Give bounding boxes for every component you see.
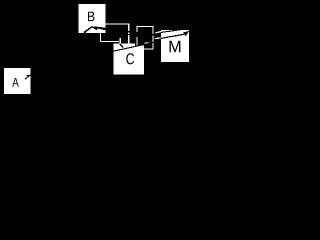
black crossing line L1 (B to box2 right) bbox=[94, 27, 156, 35]
edge A to B (black line, visible over fills) bbox=[25, 27, 92, 80]
line R inside M bbox=[161, 34, 187, 39]
wire P core box2 to M top-left bbox=[156, 32, 162, 33]
wire elbow B bottom to C top-left bbox=[100, 33, 123, 48]
line P inside M bbox=[161, 30, 180, 33]
box B bbox=[79, 4, 106, 33]
wire H1 from B right edge bbox=[106, 23, 130, 25]
notch at C top-right corner bbox=[135, 42, 145, 46]
line A to C (black, visible over fills) bbox=[31, 43, 154, 70]
box2 double-outline rectangle bbox=[137, 27, 153, 43]
black crossing line L2 (B to R start) bbox=[94, 27, 152, 39]
arrow tip bar into C top bbox=[120, 38, 122, 44]
wire elbow C right to box2 bottom bbox=[144, 43, 154, 49]
wire R core box2 to M left edge bbox=[155, 37, 161, 40]
arrowhead wing at A bbox=[27, 75, 30, 77]
box M bbox=[161, 30, 189, 62]
arrow shaft into C interior bbox=[120, 44, 124, 48]
forced gap on box2 left edge bbox=[136, 33, 138, 37]
box C bbox=[113, 44, 144, 75]
box A bbox=[4, 68, 30, 94]
stub below box2 bottom-left corner bbox=[136, 41, 137, 45]
wire V1 down to C top bbox=[128, 24, 130, 44]
arrowhead into B (caret) bbox=[84, 27, 97, 33]
arrowhead of line R at M top-right bbox=[183, 31, 189, 36]
